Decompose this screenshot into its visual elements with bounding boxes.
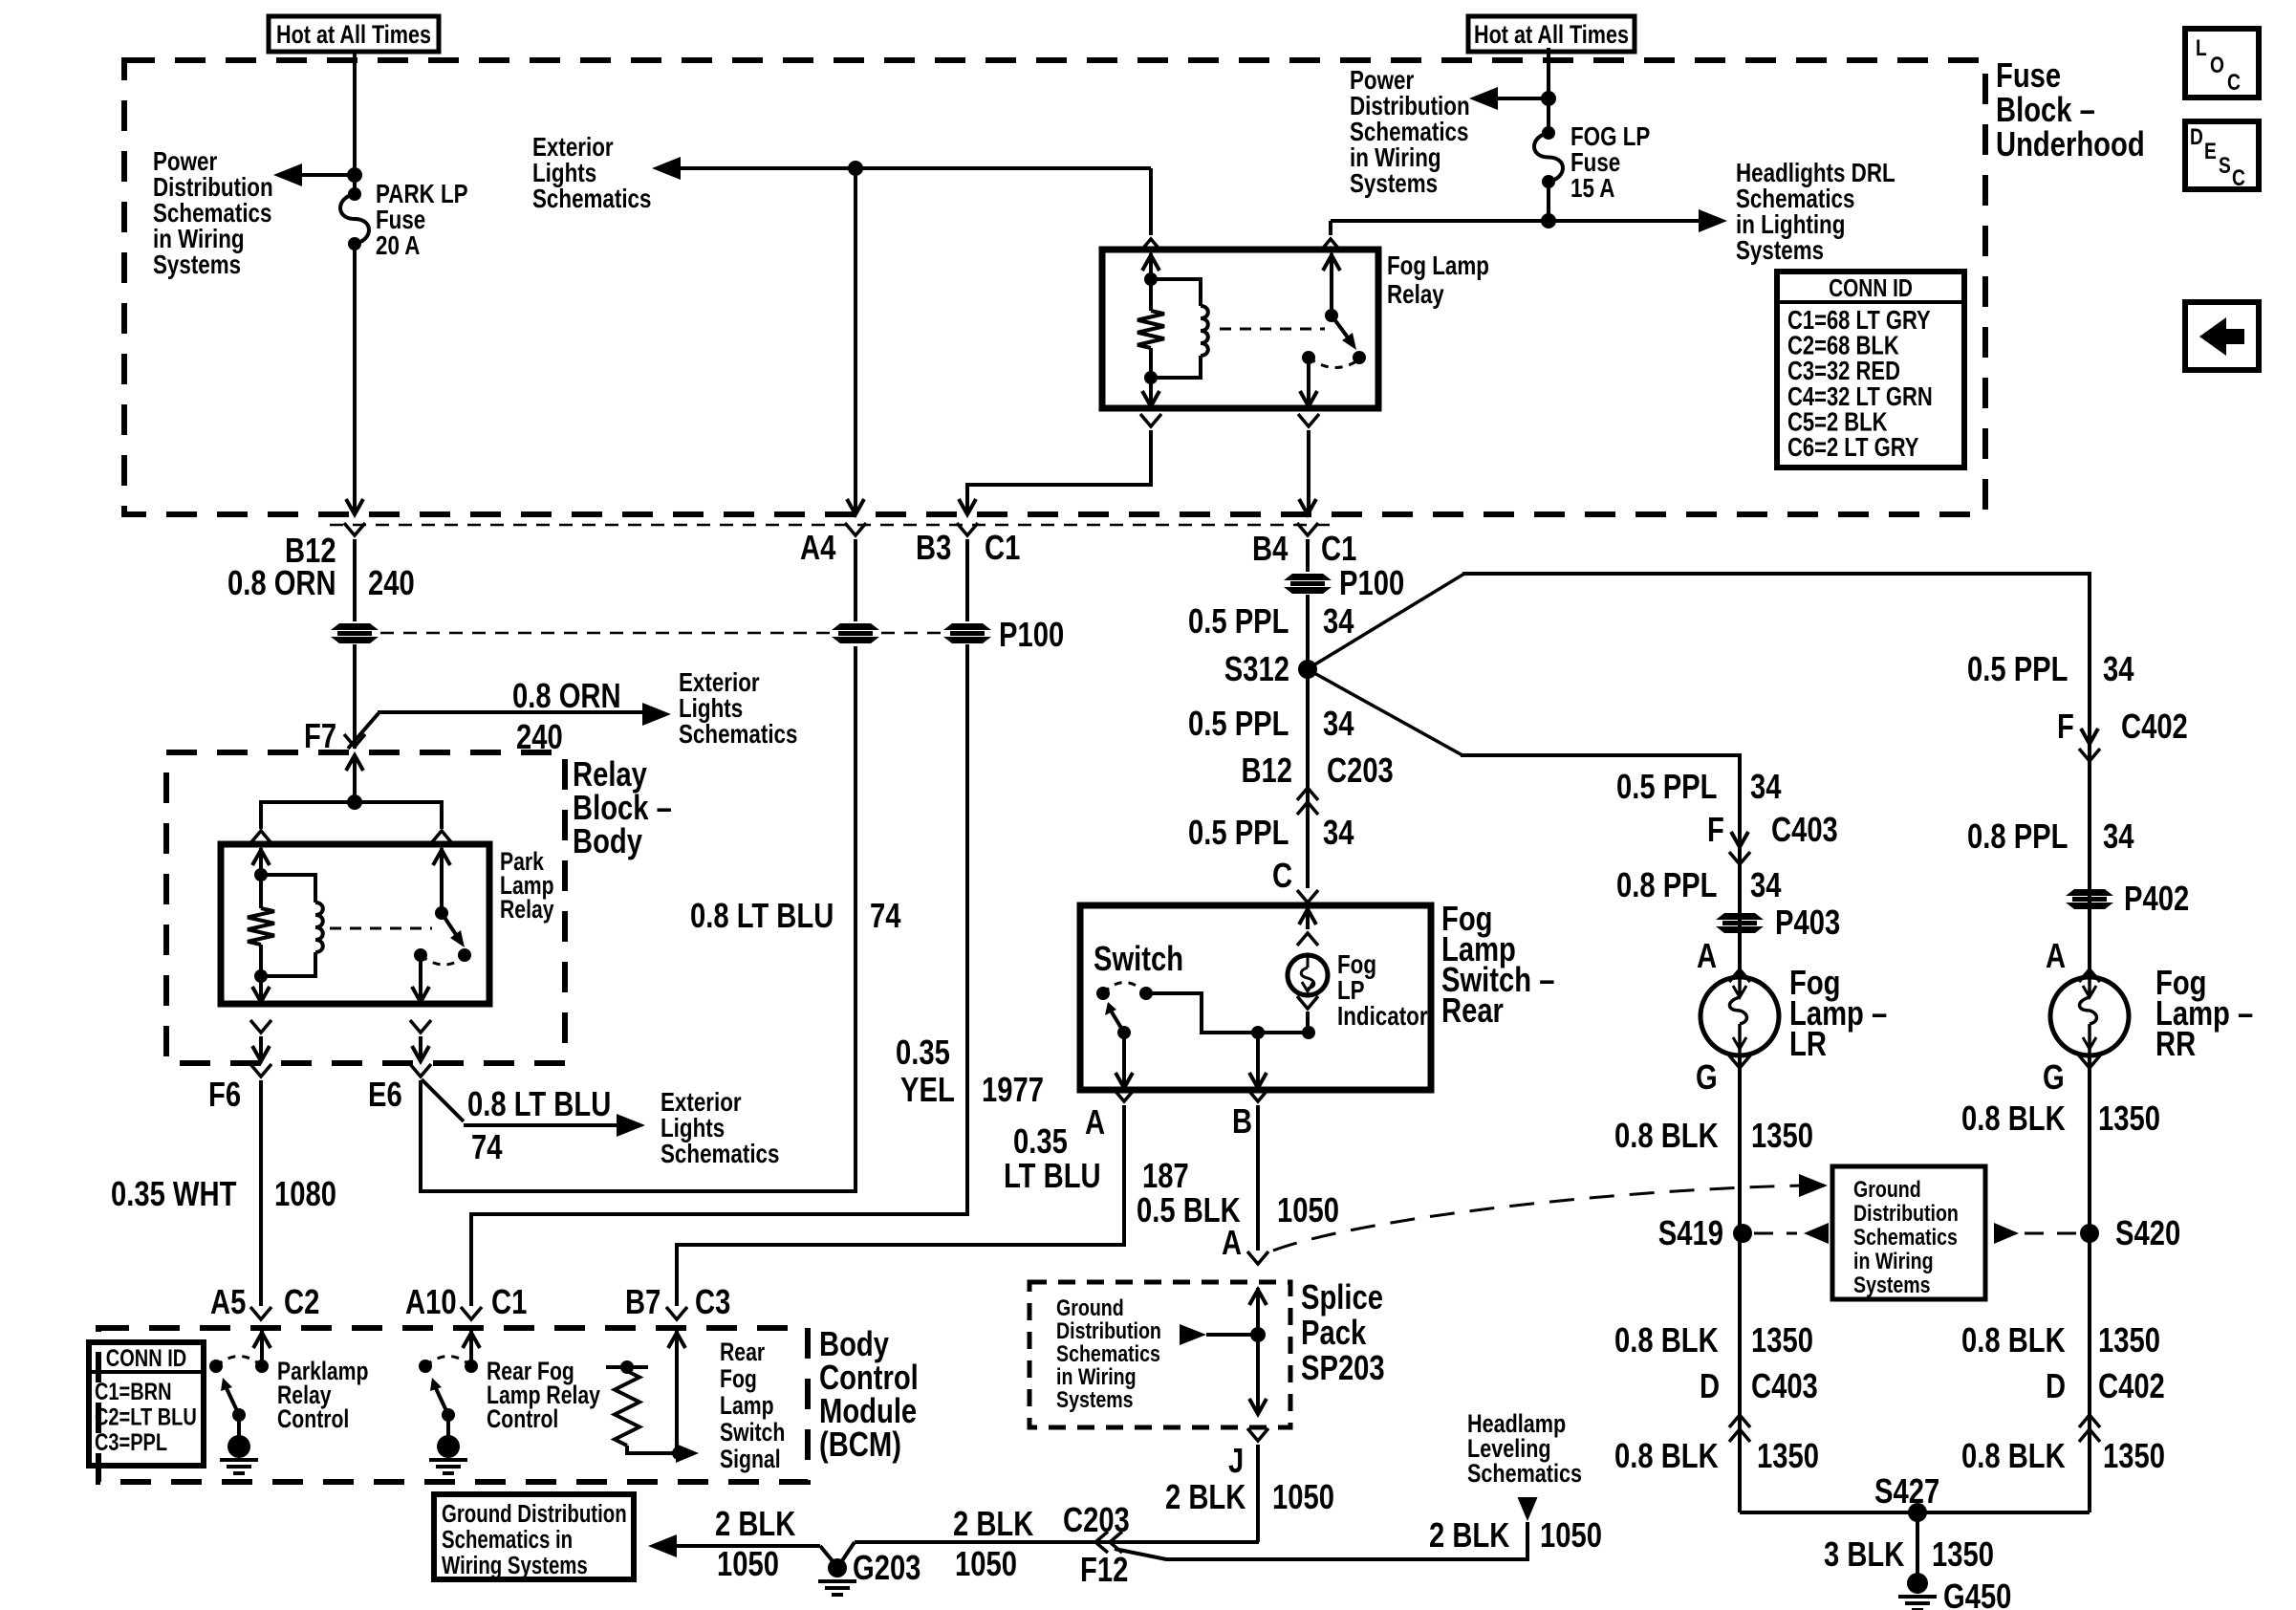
- switch output routing: [1146, 993, 1309, 1033]
- svg-text:20 A: 20 A: [376, 231, 420, 261]
- connector C403 inline: [1731, 832, 1748, 847]
- svg-text:CONN ID: CONN ID: [1829, 274, 1913, 302]
- wire S312 to left fog lamp LR: [1314, 673, 1462, 755]
- svg-text:0.5 PPL: 0.5 PPL: [1616, 768, 1717, 807]
- splice S312: [1298, 660, 1317, 679]
- switch pin B out: [1256, 1033, 1260, 1086]
- park relay coil pin entry: [259, 848, 263, 875]
- fog lamp RR: [2050, 977, 2129, 1055]
- svg-text:P100: P100: [1339, 564, 1404, 603]
- fog relay switch pivot: [1325, 309, 1338, 322]
- svg-text:A5: A5: [210, 1283, 246, 1322]
- terminal B4 chevron: [1297, 523, 1318, 535]
- splice output arrow: [1256, 1335, 1260, 1412]
- park relay node top: [254, 868, 268, 881]
- icon DESC box: [2185, 121, 2259, 189]
- svg-text:B3: B3: [916, 529, 951, 568]
- svg-text:Wiring Systems: Wiring Systems: [442, 1552, 588, 1579]
- park relay link dashed: [330, 927, 432, 930]
- svg-text:Ground Distribution: Ground Distribution: [442, 1500, 627, 1528]
- ground tap G203: [820, 1546, 834, 1562]
- svg-text:Underhood: Underhood: [1996, 125, 2145, 164]
- svg-text:C1=BRN: C1=BRN: [95, 1379, 172, 1405]
- svg-text:O: O: [2210, 52, 2224, 78]
- svg-text:C203: C203: [1063, 1501, 1130, 1540]
- svg-text:15 A: 15 A: [1570, 174, 1614, 204]
- svg-text:34: 34: [2103, 817, 2134, 857]
- svg-text:Ground: Ground: [1853, 1176, 1921, 1203]
- svg-text:34: 34: [1750, 866, 1782, 905]
- dashed reference S419 to ground box: [1754, 1232, 1797, 1235]
- terminal A4 chevron: [845, 523, 866, 535]
- wire E6 down and over to A4 net: [421, 646, 856, 1191]
- branch wire to exterior lights: [348, 713, 379, 749]
- svg-text:P403: P403: [1775, 903, 1840, 943]
- svg-text:0.8 BLK: 0.8 BLK: [1961, 1099, 2066, 1139]
- wire B4 P100 to S312: [1306, 595, 1310, 888]
- connector C402 lower inline: [2079, 1415, 2100, 1427]
- svg-text:0.35 WHT: 0.35 WHT: [111, 1175, 236, 1214]
- svg-text:Block –: Block –: [1996, 91, 2095, 130]
- connector C203 inline on ground run: [1095, 1532, 1108, 1553]
- svg-text:LT BLU: LT BLU: [1004, 1157, 1101, 1196]
- splice pack dashed box: [1029, 1282, 1290, 1427]
- svg-text:C402: C402: [2121, 707, 2188, 747]
- svg-text:1350: 1350: [1757, 1437, 1819, 1476]
- wire G203 to C203: [855, 1540, 1259, 1544]
- svg-text:Schematics: Schematics: [1467, 1460, 1582, 1489]
- svg-text:C2=LT BLU: C2=LT BLU: [95, 1403, 197, 1430]
- svg-text:0.8 BLK: 0.8 BLK: [1614, 1321, 1719, 1360]
- svg-text:0.35: 0.35: [1013, 1122, 1068, 1162]
- svg-text:F12: F12: [1080, 1551, 1128, 1590]
- svg-text:C203: C203: [1327, 751, 1394, 791]
- icon LOC box: [2185, 29, 2259, 98]
- park relay coil output: [259, 976, 263, 1000]
- svg-text:Schematics: Schematics: [679, 720, 797, 750]
- svg-text:Relay: Relay: [1387, 280, 1444, 310]
- terminal A5 chevron: [250, 1307, 271, 1319]
- svg-text:B12: B12: [1241, 751, 1292, 791]
- park relay switch contacts: [414, 948, 427, 962]
- fog relay coil output: [1149, 378, 1153, 405]
- svg-text:1050: 1050: [1272, 1478, 1334, 1517]
- wire hot feed to FOG LP fuse: [1547, 48, 1550, 133]
- fog relay link coil to switch dashed: [1220, 328, 1325, 331]
- svg-text:34: 34: [1323, 814, 1354, 853]
- svg-text:C1: C1: [985, 529, 1020, 568]
- terminal F6 chevron: [250, 1064, 271, 1077]
- fog lamp switch box: [1080, 905, 1431, 1090]
- svg-text:SP203: SP203: [1301, 1349, 1385, 1388]
- svg-text:C6=2 LT GRY: C6=2 LT GRY: [1787, 433, 1919, 463]
- fuse block underhood dashed outline: [124, 60, 1985, 514]
- svg-text:Schematics: Schematics: [661, 1140, 779, 1169]
- pin B chevron: [1247, 1089, 1268, 1101]
- park relay coil: [261, 875, 315, 903]
- svg-text:0.5 PPL: 0.5 PPL: [1188, 602, 1289, 642]
- wire pin A to BCM B7: [677, 1105, 1124, 1306]
- svg-text:Fuse: Fuse: [1996, 56, 2061, 96]
- svg-text:0.8 LT BLU: 0.8 LT BLU: [467, 1085, 611, 1124]
- svg-text:Splice: Splice: [1301, 1278, 1383, 1317]
- splice S419: [1733, 1224, 1752, 1243]
- svg-text:C: C: [2227, 69, 2241, 96]
- park relay node bottom: [254, 969, 268, 983]
- svg-text:1350: 1350: [2103, 1437, 2165, 1476]
- terminal B12 chevron: [344, 523, 365, 535]
- svg-text:C403: C403: [1771, 811, 1838, 850]
- svg-text:34: 34: [1750, 768, 1782, 807]
- wire E6 branch to exterior lights: [422, 1079, 464, 1121]
- fog relay switch output: [1307, 358, 1310, 405]
- svg-text:Systems: Systems: [1056, 1386, 1134, 1413]
- terminal E6 chevron: [410, 1064, 431, 1077]
- svg-text:C2: C2: [284, 1283, 319, 1322]
- svg-text:F: F: [1707, 811, 1724, 850]
- wire PARK LP fuse to B12: [353, 244, 357, 511]
- conn id table underhood: [1777, 272, 1964, 468]
- connector P402: [2066, 889, 2113, 896]
- svg-text:RR: RR: [2155, 1025, 2196, 1064]
- svg-text:A: A: [1085, 1103, 1105, 1142]
- splice S427: [1908, 1503, 1927, 1522]
- svg-text:D: D: [1700, 1367, 1720, 1406]
- wires out of relay block: [259, 1036, 263, 1059]
- BCM dashed box: [98, 1328, 808, 1482]
- svg-text:C3=PPL: C3=PPL: [95, 1429, 167, 1456]
- svg-text:Pack: Pack: [1301, 1314, 1367, 1353]
- svg-text:1350: 1350: [2098, 1321, 2160, 1360]
- wire indicator to common: [1306, 1012, 1310, 1033]
- svg-text:G450: G450: [1943, 1577, 2011, 1610]
- park relay switch pivot: [435, 906, 448, 920]
- svg-text:Systems: Systems: [1350, 169, 1438, 199]
- svg-text:Fog: Fog: [720, 1365, 757, 1394]
- fog relay switch blade: [1332, 315, 1351, 341]
- svg-text:Indicator: Indicator: [1337, 1002, 1428, 1032]
- wire C403 to P403: [1738, 828, 1742, 977]
- svg-text:1050: 1050: [1277, 1191, 1339, 1230]
- terminal J chevron: [1247, 1428, 1268, 1441]
- svg-text:(BCM): (BCM): [819, 1425, 901, 1465]
- wire split to park relay pins: [261, 802, 442, 829]
- svg-text:0.8 ORN: 0.8 ORN: [227, 564, 336, 603]
- fog relay coil pin entry: [1149, 253, 1153, 279]
- relay box fog lamp relay: [1102, 250, 1378, 408]
- fog relay internal node bottom: [1144, 371, 1158, 384]
- svg-text:G: G: [2043, 1058, 2065, 1098]
- connector C402 inline: [2081, 729, 2098, 744]
- svg-text:Systems: Systems: [1853, 1272, 1931, 1298]
- svg-text:Fog Lamp: Fog Lamp: [1387, 251, 1489, 281]
- svg-text:Relay: Relay: [500, 896, 554, 925]
- wire fog relay coil out to B3: [1140, 414, 1161, 426]
- svg-text:0.8 BLK: 0.8 BLK: [1614, 1117, 1719, 1156]
- ground distribution schematics box right: [1832, 1166, 1985, 1299]
- svg-text:3 BLK: 3 BLK: [1824, 1535, 1904, 1575]
- wire B4 down to P100: [1306, 539, 1310, 572]
- node indicator junction: [1302, 1026, 1315, 1039]
- fuse PARK LP 20A: [348, 187, 361, 201]
- svg-text:1350: 1350: [2098, 1099, 2160, 1139]
- svg-text:S312: S312: [1224, 650, 1289, 689]
- wire B3 down: [965, 539, 969, 621]
- hot at all times box right: [1468, 16, 1635, 52]
- svg-text:A: A: [1222, 1224, 1242, 1263]
- svg-text:A10: A10: [405, 1283, 457, 1322]
- svg-text:1350: 1350: [1932, 1535, 1994, 1575]
- icon back arrow box: [2185, 302, 2259, 370]
- svg-text:Lamp: Lamp: [720, 1392, 774, 1421]
- hot at all times box left: [269, 16, 439, 52]
- parklamp relay control driver: [260, 1331, 264, 1366]
- svg-text:Hot at All Times: Hot at All Times: [1474, 21, 1629, 50]
- park relay switch output: [419, 955, 422, 1000]
- switch pivot: [1117, 1026, 1131, 1039]
- connector P100 on A4 wire: [832, 623, 879, 630]
- svg-text:Schematics in: Schematics in: [442, 1526, 573, 1554]
- svg-text:D: D: [2190, 123, 2203, 150]
- svg-text:C402: C402: [2098, 1367, 2165, 1406]
- svg-text:C3: C3: [695, 1283, 730, 1322]
- svg-text:187: 187: [1142, 1157, 1189, 1196]
- svg-text:YEL: YEL: [900, 1071, 955, 1110]
- svg-text:LR: LR: [1789, 1025, 1827, 1064]
- svg-text:Control: Control: [277, 1405, 349, 1434]
- svg-text:C403: C403: [1751, 1367, 1818, 1406]
- svg-text:Hot at All Times: Hot at All Times: [276, 21, 431, 50]
- park relay switch pin entry: [440, 848, 444, 913]
- arrow to ground distribution left: [675, 1544, 820, 1548]
- svg-text:2 BLK: 2 BLK: [715, 1505, 795, 1544]
- svg-text:0.5 PPL: 0.5 PPL: [1967, 650, 2068, 689]
- svg-text:Switch: Switch: [1094, 940, 1183, 979]
- svg-text:1050: 1050: [955, 1545, 1017, 1584]
- fuse FOG LP 15A: [1542, 126, 1555, 140]
- svg-text:1050: 1050: [1540, 1516, 1602, 1556]
- svg-text:1977: 1977: [982, 1071, 1044, 1110]
- relay box park lamp relay: [221, 844, 489, 1004]
- dashed reference to ground distribution: [1273, 1186, 1803, 1251]
- wire to fog relay switch pin: [1329, 221, 1332, 235]
- svg-text:B: B: [1232, 1102, 1252, 1142]
- svg-text:E: E: [2204, 138, 2217, 164]
- connector C403 lower inline: [1729, 1415, 1750, 1427]
- wire RR lamp to S420: [2088, 1055, 2091, 1512]
- fog lamp LR: [1700, 977, 1779, 1055]
- wire J to ground run: [1256, 1445, 1260, 1542]
- svg-text:P402: P402: [2124, 880, 2189, 919]
- svg-text:34: 34: [2103, 650, 2134, 689]
- splice entry arrow: [1256, 1288, 1260, 1335]
- switch pin A out: [1122, 1033, 1126, 1086]
- wire S312 to right fog lamp RR: [1313, 574, 1464, 665]
- svg-text:1350: 1350: [1751, 1117, 1813, 1156]
- svg-text:0.8 PPL: 0.8 PPL: [1616, 866, 1717, 905]
- svg-text:240: 240: [368, 564, 415, 603]
- svg-text:C1: C1: [1321, 530, 1356, 569]
- wire headlamp leveling feed: [1115, 1522, 1527, 1559]
- node junction to power distribution right: [1541, 91, 1556, 106]
- svg-text:74: 74: [471, 1128, 503, 1167]
- wire arrow to power distribution right: [1483, 97, 1549, 100]
- wire F6 to BCM A5: [259, 1080, 263, 1306]
- fog relay internal node top: [1144, 272, 1158, 286]
- dashed reference ground box to S420: [1994, 1223, 2019, 1244]
- svg-text:Control: Control: [487, 1405, 558, 1434]
- terminal A chevron LR: [1729, 969, 1750, 982]
- svg-text:S427: S427: [1874, 1472, 1939, 1512]
- connector P100 on B3 wire: [943, 623, 991, 630]
- svg-text:Rear: Rear: [720, 1338, 765, 1367]
- svg-text:0.8 BLK: 0.8 BLK: [1614, 1437, 1719, 1476]
- svg-text:G203: G203: [853, 1549, 921, 1588]
- wire ground bus to S427: [1740, 1511, 2090, 1514]
- svg-text:C1: C1: [491, 1283, 527, 1322]
- wire B3 to A10: [471, 644, 967, 1306]
- splice node: [1250, 1327, 1266, 1342]
- svg-text:Distribution: Distribution: [1853, 1200, 1959, 1227]
- svg-text:L: L: [2196, 34, 2207, 61]
- fog LP indicator lamp: [1288, 955, 1328, 995]
- switch blade arrow: [1111, 1011, 1124, 1033]
- svg-text:Schematics: Schematics: [1853, 1224, 1958, 1251]
- terminal A10 chevron: [461, 1307, 482, 1319]
- svg-text:0.5 PPL: 0.5 PPL: [1188, 705, 1289, 744]
- svg-text:74: 74: [870, 897, 901, 936]
- wire to fog relay coil pin: [1149, 168, 1153, 235]
- svg-text:2 BLK: 2 BLK: [1165, 1478, 1245, 1517]
- svg-text:Switch: Switch: [720, 1419, 785, 1447]
- svg-text:1350: 1350: [1751, 1321, 1813, 1360]
- svg-text:2 BLK: 2 BLK: [953, 1505, 1033, 1544]
- switch entry arrow: [1306, 907, 1310, 929]
- terminal A chevron RR: [2079, 969, 2100, 982]
- terminal F7 chevron: [344, 734, 365, 747]
- node fog fuse output: [1541, 213, 1556, 228]
- svg-text:0.8 PPL: 0.8 PPL: [1967, 817, 2068, 857]
- wire S427 to G450: [1916, 1512, 1919, 1576]
- wire exterior lights feed: [665, 166, 1151, 170]
- wire FOG LP fuse down to distribution node: [1547, 182, 1550, 221]
- svg-text:0.8 ORN: 0.8 ORN: [512, 677, 621, 716]
- svg-text:34: 34: [1323, 705, 1354, 744]
- splice reference arrow: [1206, 1333, 1258, 1337]
- terminal G chevron LR: [1729, 1055, 1750, 1068]
- svg-text:CONN ID: CONN ID: [106, 1345, 186, 1372]
- pin A chevron: [1114, 1089, 1135, 1101]
- svg-text:A: A: [1697, 937, 1717, 976]
- svg-text:1080: 1080: [274, 1175, 336, 1214]
- dashed harness line between P100 connectors: [380, 632, 830, 635]
- svg-text:Body: Body: [573, 822, 643, 861]
- svg-text:D: D: [2046, 1367, 2066, 1406]
- fog relay switch pin entry: [1330, 253, 1333, 315]
- node junction to power distribution: [347, 167, 362, 183]
- connector P403: [1716, 913, 1764, 920]
- ground distribution schematics box left: [434, 1494, 634, 1579]
- terminal B3 chevron: [957, 523, 978, 535]
- svg-text:0.5 PPL: 0.5 PPL: [1188, 814, 1289, 853]
- svg-text:in Wiring: in Wiring: [1853, 1248, 1934, 1274]
- node park relay feed split: [347, 794, 362, 810]
- park relay switch blade: [442, 913, 459, 939]
- svg-text:34: 34: [1323, 602, 1354, 642]
- svg-text:J: J: [1228, 1442, 1244, 1481]
- relay block body dashed outline: [166, 752, 565, 1063]
- wire into relay block: [346, 755, 363, 771]
- ground G450: [1907, 1573, 1928, 1594]
- svg-text:0.8 LT BLU: 0.8 LT BLU: [690, 897, 834, 936]
- wire A4 from junction down to P100: [854, 168, 857, 511]
- svg-text:Signal: Signal: [720, 1446, 781, 1474]
- svg-text:S420: S420: [2115, 1214, 2180, 1253]
- svg-text:A: A: [2046, 937, 2066, 976]
- svg-text:F6: F6: [208, 1076, 241, 1115]
- conn id table BCM: [89, 1342, 204, 1466]
- BCM pull resistor: [606, 1365, 648, 1369]
- svg-text:1050: 1050: [717, 1545, 779, 1584]
- wire from hot feed to PARK LP fuse: [353, 52, 357, 194]
- rear fog lamp relay control driver: [469, 1331, 473, 1366]
- fog relay switch contacts: [1302, 351, 1315, 364]
- terminal G chevron RR: [2079, 1055, 2100, 1068]
- fog relay coil: [1151, 279, 1201, 306]
- park relay socket chevrons: [250, 1020, 271, 1033]
- connector P100 on B12 wire: [331, 623, 379, 630]
- connector P100 on B4 wire: [1284, 574, 1332, 580]
- svg-text:S: S: [2219, 152, 2231, 179]
- svg-text:2 BLK: 2 BLK: [1429, 1516, 1509, 1556]
- svg-text:C: C: [1272, 857, 1292, 896]
- node pin B takeoff: [1251, 1026, 1265, 1039]
- wire arrow to power distribution schematics: [287, 173, 355, 177]
- svg-text:B7: B7: [625, 1283, 661, 1322]
- thin dashed connector boundary line: [330, 524, 1338, 527]
- park relay resistor: [259, 875, 263, 908]
- wire fog relay switch out to B4: [1298, 414, 1319, 426]
- splice S420: [2080, 1224, 2099, 1243]
- rear fog switch signal input: [675, 1331, 679, 1453]
- wire LR lamp to S419: [1738, 1055, 1742, 1512]
- terminal B7 chevron: [666, 1307, 687, 1319]
- svg-text:S419: S419: [1658, 1214, 1723, 1253]
- fog relay resistor: [1149, 279, 1153, 311]
- wire pin B to splice pack: [1256, 1105, 1260, 1251]
- switch contacts: [1096, 987, 1110, 1000]
- svg-text:0.8 BLK: 0.8 BLK: [1961, 1321, 2066, 1360]
- svg-text:Systems: Systems: [1736, 236, 1824, 266]
- terminal C chevron: [1297, 890, 1318, 903]
- connector C203 inline chevrons: [1297, 788, 1318, 800]
- svg-text:C: C: [2232, 164, 2245, 191]
- svg-text:P100: P100: [999, 616, 1064, 655]
- svg-text:F: F: [2057, 707, 2074, 747]
- svg-text:Systems: Systems: [153, 250, 241, 280]
- svg-text:0.8 BLK: 0.8 BLK: [1961, 1437, 2066, 1476]
- svg-text:0.35: 0.35: [896, 1033, 950, 1073]
- svg-text:B4: B4: [1252, 530, 1289, 569]
- svg-text:G: G: [1696, 1058, 1718, 1098]
- indicator lamp lower chevron: [1297, 996, 1318, 1009]
- wire fog fuse output to headlights DRL: [1331, 219, 1714, 223]
- svg-text:Rear: Rear: [1441, 991, 1504, 1031]
- terminal A chevron at splice: [1247, 1251, 1268, 1264]
- svg-text:E6: E6: [368, 1076, 402, 1115]
- node A4 takeoff: [848, 161, 863, 176]
- wire B12 down: [353, 539, 357, 621]
